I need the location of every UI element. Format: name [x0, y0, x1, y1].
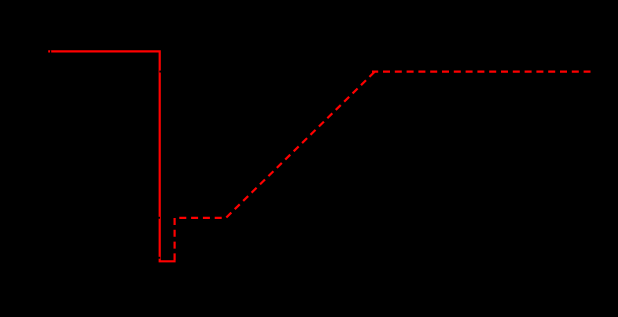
black guide notch crossing solid vertical at recovery level [155, 217, 160, 219]
dashed red line: recovery rise [175, 72, 375, 261]
black axis notch at line start [50, 50, 51, 52]
black guide notch crossing solid line at top plateau level [159, 71, 161, 73]
dashed red line: recovered plateau [372, 70, 591, 72]
solid red line: peak plateau, drop, trough [48, 51, 175, 261]
black guide notch crossing solid vertical near trough [158, 257, 161, 259]
